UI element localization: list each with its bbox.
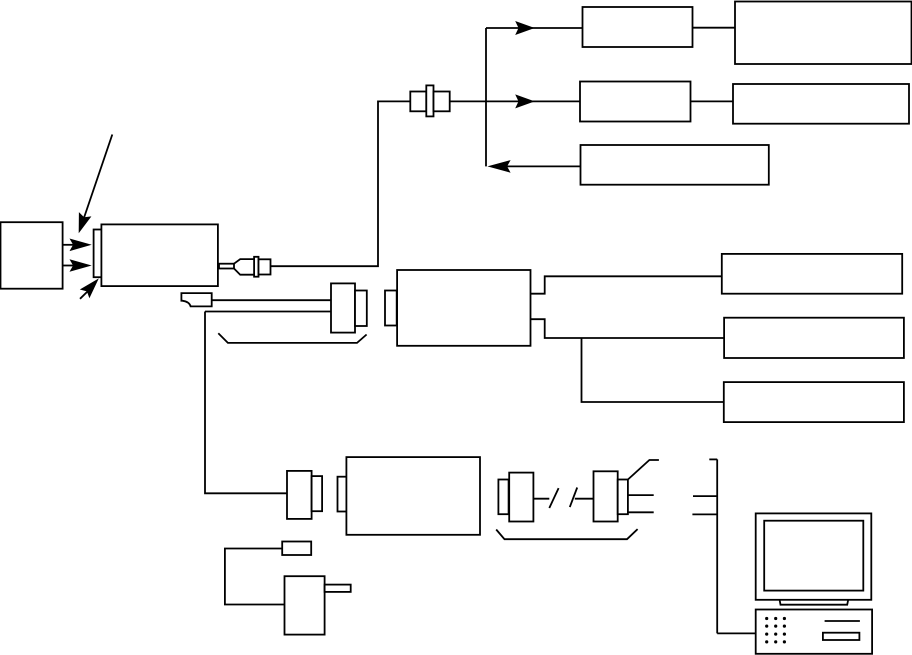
- wire coupler to middle box: [450, 100, 580, 102]
- arrowhead middle branch: [515, 94, 535, 108]
- wire middle boxes: [691, 100, 734, 102]
- input strip on laser: [94, 230, 102, 278]
- tick at top of computer trunk: [709, 458, 717, 460]
- underbrace 2: [496, 529, 637, 539]
- computer trunk vertical: [716, 459, 718, 633]
- box right 1: [722, 254, 902, 294]
- arrowhead bottom branch left: [487, 160, 510, 173]
- monitor outer: [756, 513, 872, 599]
- vertical trunk line: [485, 28, 487, 166]
- box P: [285, 576, 325, 634]
- wire top boxes: [693, 27, 736, 29]
- wire trunk to computer: [717, 632, 756, 634]
- arrowhead into strip 1: [70, 239, 92, 252]
- connector C3 secondary: [312, 476, 323, 511]
- lead 3 from C5: [628, 511, 654, 513]
- wire to right box 1: [531, 276, 722, 293]
- riser down: [205, 312, 287, 494]
- fiber connector band: [254, 257, 258, 277]
- coupler right box: [434, 92, 450, 112]
- break slash 1: [549, 488, 558, 508]
- box top 2: [735, 2, 912, 65]
- lead 2 from C5: [628, 494, 654, 496]
- connector C4 secondary: [498, 480, 508, 515]
- arrowhead top branch: [515, 21, 535, 35]
- wire bottom branch: [506, 165, 581, 167]
- wire S3 loop to box P: [225, 549, 285, 605]
- monitor screen: [764, 521, 863, 591]
- fiber connector body: [259, 259, 271, 274]
- pigtail tab: [181, 293, 211, 306]
- wire break to C5: [575, 498, 594, 500]
- diagonal arrowhead bottom: [80, 278, 99, 298]
- fiber connector stub: [219, 264, 234, 269]
- fiber connector funnel: [234, 259, 254, 275]
- small rect S1: [385, 291, 397, 326]
- box right 2: [724, 318, 904, 358]
- lead into trunk 1: [693, 495, 717, 497]
- diagonal pointer line top: [83, 135, 112, 222]
- box top 1: [583, 7, 693, 47]
- wire arrow line 2: [63, 265, 73, 267]
- connector C2 main: [331, 283, 355, 332]
- diagonal lead from C5: [628, 460, 659, 480]
- underbrace 1: [218, 333, 366, 343]
- small rect S2: [338, 477, 349, 512]
- box P side tab: [325, 585, 351, 592]
- diagonal arrowhead top: [79, 212, 92, 233]
- box middle 2: [733, 84, 909, 124]
- wire riser to connector: [205, 311, 331, 313]
- diagonal pointer line bottom: [80, 291, 88, 299]
- box lower unit: [346, 457, 480, 535]
- wire T down to right box 3: [582, 338, 724, 402]
- box middle unit: [397, 270, 530, 346]
- connector C2 secondary: [355, 291, 367, 327]
- box bottom branch: [581, 145, 769, 185]
- box middle 1: [580, 82, 691, 122]
- lead into trunk 2: [692, 513, 717, 515]
- connector C5 main: [594, 471, 618, 521]
- connector C4 main: [509, 473, 533, 522]
- base slot line: [825, 620, 860, 622]
- base drive rect: [823, 633, 860, 640]
- wire arrow line 1: [63, 244, 73, 246]
- wire top branch: [486, 27, 583, 29]
- wire connector to riser: [271, 101, 411, 266]
- connector C3 main: [287, 471, 312, 519]
- coupler left box: [410, 92, 426, 112]
- wire to right box 2: [531, 319, 725, 338]
- small rect S3: [282, 542, 311, 556]
- keypad dots: [765, 617, 786, 644]
- connector C5 secondary: [618, 480, 628, 515]
- box source left: [1, 222, 63, 289]
- coupler bar: [426, 85, 433, 116]
- wire tab to connector: [212, 299, 331, 301]
- break slash 2: [570, 488, 577, 508]
- box laser: [101, 224, 217, 286]
- arrowhead into strip 2: [70, 259, 92, 272]
- monitor stand: [780, 600, 849, 605]
- box right 3: [724, 382, 904, 422]
- wire C4 to break: [533, 498, 549, 500]
- computer base: [756, 610, 872, 654]
